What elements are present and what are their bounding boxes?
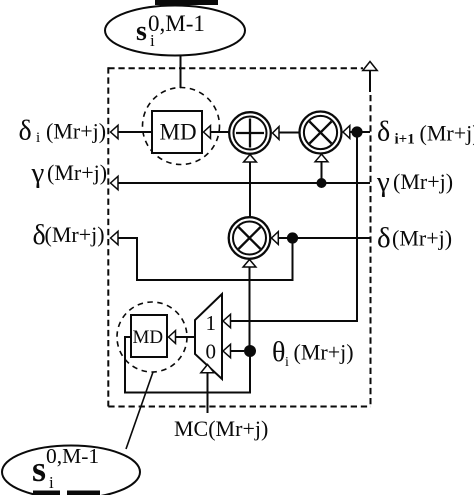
wire node to mult2 xyxy=(278,237,287,239)
register MD2 xyxy=(131,315,167,357)
junction gamma xyxy=(317,178,327,188)
svg-text:δ: δ xyxy=(19,116,32,147)
junction delta right xyxy=(287,232,298,243)
arrow into mult1 right xyxy=(343,126,350,139)
junction theta xyxy=(244,345,256,357)
arrow into adder right xyxy=(273,127,280,140)
svg-text:(Mr+j): (Mr+j) xyxy=(393,169,453,194)
register MD1 xyxy=(152,111,202,153)
svg-text:s: s xyxy=(32,449,46,489)
multiplier X1 xyxy=(300,112,342,154)
svg-text:(Mr+j): (Mr+j) xyxy=(420,121,474,146)
wire MD1 to adder xyxy=(211,131,230,133)
wire delta loop left xyxy=(118,238,293,280)
arrow into MD1 right xyxy=(204,126,211,139)
svg-text:0: 0 xyxy=(206,340,217,364)
wire MC select xyxy=(207,373,209,413)
input arrow delta_i at border xyxy=(111,125,119,138)
arrow into mult2 bottom xyxy=(243,260,256,268)
svg-text:γ: γ xyxy=(31,157,45,189)
label delta (Mr+j) right xyxy=(377,222,452,254)
wire mux to MD2 xyxy=(176,336,196,338)
svg-text:(Mr+j): (Mr+j) xyxy=(392,226,452,251)
wire delta_i+1 feedback down xyxy=(231,132,358,321)
svg-text:i: i xyxy=(36,130,40,146)
label delta_i (Mr+j) xyxy=(19,116,107,147)
svg-text:δ: δ xyxy=(377,222,391,254)
label gamma (Mr+j) right xyxy=(376,166,453,198)
svg-text:(Mr+j): (Mr+j) xyxy=(294,340,354,365)
svg-text:s: s xyxy=(136,16,147,47)
label gamma (Mr+j) left xyxy=(31,157,108,189)
label delta (Mr+j) left xyxy=(33,220,105,251)
MD1 dashed circle xyxy=(143,88,220,165)
MD2 dashed circle xyxy=(117,302,187,372)
svg-text:(Mr+j): (Mr+j) xyxy=(47,160,107,185)
svg-text:(Mr+j): (Mr+j) xyxy=(45,222,105,247)
arrow into mult2 right xyxy=(272,232,279,245)
arrow into mux input 0 xyxy=(223,344,231,357)
svg-text:0,M-1: 0,M-1 xyxy=(148,11,205,36)
label theta_i (Mr+j) xyxy=(272,337,354,370)
wire delta_i to MD1 xyxy=(118,131,152,133)
multiplier X2 xyxy=(229,217,271,259)
svg-text:MD: MD xyxy=(133,327,164,348)
junction node delta_i+1 xyxy=(351,126,362,137)
svg-text:θ: θ xyxy=(272,337,285,368)
mux M1 xyxy=(195,294,222,379)
arrow into adder bottom xyxy=(244,155,257,163)
wire theta to mux xyxy=(231,350,245,352)
wire theta branch to mult2 xyxy=(249,267,251,346)
wire mult1 to node xyxy=(350,131,370,133)
svg-text:0,M-1: 0,M-1 xyxy=(46,444,99,468)
PE dashed box xyxy=(108,67,371,406)
input arrow gamma at border xyxy=(111,176,119,189)
svg-text:MC(Mr+j): MC(Mr+j) xyxy=(174,416,268,441)
adder U1 xyxy=(229,112,271,154)
node S top ellipse xyxy=(105,6,245,56)
wire theta loop to MD2 xyxy=(125,337,250,393)
svg-text:i+1: i+1 xyxy=(395,132,415,148)
label delta_i+1 (Mr+j) right xyxy=(377,117,474,148)
wire S bottom to MD2 diagonal xyxy=(126,372,153,449)
svg-text:(Mr+j): (Mr+j) xyxy=(46,119,106,144)
wire adder to mult1 xyxy=(279,132,300,134)
node S bottom ellipse xyxy=(2,444,140,495)
bottom clipped bar xyxy=(33,491,60,495)
wire gamma xyxy=(118,182,370,184)
svg-text:1: 1 xyxy=(206,311,217,335)
svg-text:δ: δ xyxy=(377,117,390,148)
arrow into mult1 bottom xyxy=(315,154,328,162)
arrow into mux input 1 xyxy=(223,314,231,327)
wire gamma branch to mult1 xyxy=(321,162,323,183)
mux select arrow xyxy=(201,365,214,373)
wire mult2 to adder xyxy=(249,162,251,218)
arrow into MD2 right xyxy=(169,331,176,344)
svg-text:i: i xyxy=(49,473,54,492)
wire ellipse to MD1 xyxy=(180,55,182,88)
wire delta to border right xyxy=(293,237,371,239)
input arrow delta at left border xyxy=(111,231,119,244)
top clipped bar xyxy=(155,0,218,5)
svg-text:i: i xyxy=(285,355,289,370)
svg-text:MD: MD xyxy=(160,120,197,145)
output arrow top right xyxy=(363,62,377,93)
svg-text:γ: γ xyxy=(376,166,390,198)
